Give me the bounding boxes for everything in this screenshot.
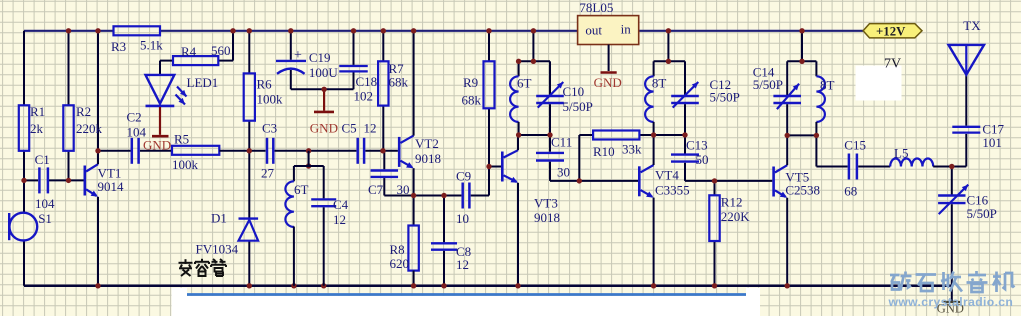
svg-text:R12: R12 [721, 195, 743, 210]
svg-text:GND: GND [310, 121, 338, 136]
svg-text:C15: C15 [844, 138, 866, 153]
svg-text:R5: R5 [174, 132, 189, 147]
svg-text:C2: C2 [127, 110, 142, 125]
svg-text:C13: C13 [686, 138, 708, 153]
svg-text:R2: R2 [76, 104, 91, 119]
svg-text:5.1k: 5.1k [140, 38, 163, 53]
svg-text:L5: L5 [894, 146, 908, 161]
svg-text:R9: R9 [463, 75, 478, 90]
svg-text:30: 30 [397, 182, 410, 197]
svg-text:FV1034: FV1034 [196, 242, 239, 257]
svg-text:10: 10 [456, 211, 469, 226]
svg-text:78L05: 78L05 [579, 0, 613, 15]
svg-text:+12V: +12V [876, 24, 906, 38]
svg-text:C7: C7 [368, 182, 384, 197]
svg-text:5/50P: 5/50P [710, 90, 740, 105]
svg-text:8T: 8T [820, 78, 835, 93]
svg-text:102: 102 [354, 89, 374, 104]
svg-text:8T: 8T [652, 76, 667, 91]
svg-text:C10: C10 [563, 84, 585, 99]
svg-text:12: 12 [333, 212, 346, 227]
svg-text:100k: 100k [257, 92, 284, 107]
svg-text:2k: 2k [30, 121, 44, 136]
svg-text:R8: R8 [390, 242, 405, 257]
svg-text:104: 104 [35, 196, 55, 211]
svg-text:R1: R1 [30, 104, 45, 119]
svg-text:VT2: VT2 [415, 136, 439, 151]
svg-text:5/50P: 5/50P [563, 99, 593, 114]
svg-text:C5: C5 [342, 121, 357, 136]
svg-text:VT3: VT3 [534, 196, 558, 211]
svg-text:560: 560 [211, 43, 231, 58]
svg-text:C1: C1 [35, 152, 50, 167]
svg-text:GND: GND [143, 138, 171, 153]
svg-text:30: 30 [557, 165, 570, 180]
svg-text:50: 50 [696, 152, 709, 167]
svg-text:5/50P: 5/50P [967, 206, 997, 221]
svg-text:12: 12 [364, 121, 377, 136]
svg-text:9014: 9014 [98, 179, 125, 194]
svg-text:68k: 68k [462, 93, 482, 108]
svg-text:33k: 33k [622, 142, 642, 157]
svg-text:R3: R3 [111, 39, 126, 54]
svg-text:C2538: C2538 [785, 183, 820, 198]
svg-text:100k: 100k [172, 157, 199, 172]
svg-text:+: + [294, 48, 302, 63]
svg-text:12: 12 [456, 257, 469, 272]
svg-text:www.crystalradio.cn: www.crystalradio.cn [888, 295, 1014, 309]
svg-text:100U: 100U [309, 65, 339, 80]
svg-text:C9: C9 [456, 169, 471, 184]
svg-text:out: out [585, 23, 602, 38]
svg-text:LED1: LED1 [187, 75, 219, 90]
svg-text:220k: 220k [76, 121, 103, 136]
svg-text:in: in [621, 22, 632, 37]
svg-text:C3355: C3355 [655, 183, 690, 198]
svg-text:C18: C18 [356, 74, 378, 89]
svg-text:6T: 6T [294, 182, 309, 197]
svg-text:9018: 9018 [534, 210, 560, 225]
svg-text:27: 27 [261, 166, 275, 181]
svg-text:TX: TX [963, 18, 981, 33]
svg-text:C19: C19 [309, 50, 331, 65]
svg-text:5/50P: 5/50P [753, 77, 783, 92]
svg-text:C4: C4 [333, 197, 349, 212]
svg-text:220K: 220K [721, 209, 751, 224]
svg-text:R4: R4 [181, 44, 197, 59]
svg-text:D1: D1 [211, 211, 227, 226]
svg-text:R10: R10 [593, 144, 615, 159]
svg-text:C3: C3 [262, 121, 277, 136]
svg-text:VT4: VT4 [655, 168, 679, 183]
svg-text:C11: C11 [551, 135, 572, 150]
svg-text:6T: 6T [517, 76, 532, 91]
svg-text:68k: 68k [389, 75, 409, 90]
svg-text:R6: R6 [257, 77, 273, 92]
svg-text:GND: GND [594, 75, 622, 90]
svg-text:9018: 9018 [415, 151, 441, 166]
svg-text:68: 68 [844, 184, 857, 199]
svg-text:7V: 7V [884, 57, 901, 72]
svg-text:620: 620 [390, 256, 410, 271]
svg-text:101: 101 [982, 135, 1002, 150]
svg-text:S1: S1 [38, 211, 52, 226]
